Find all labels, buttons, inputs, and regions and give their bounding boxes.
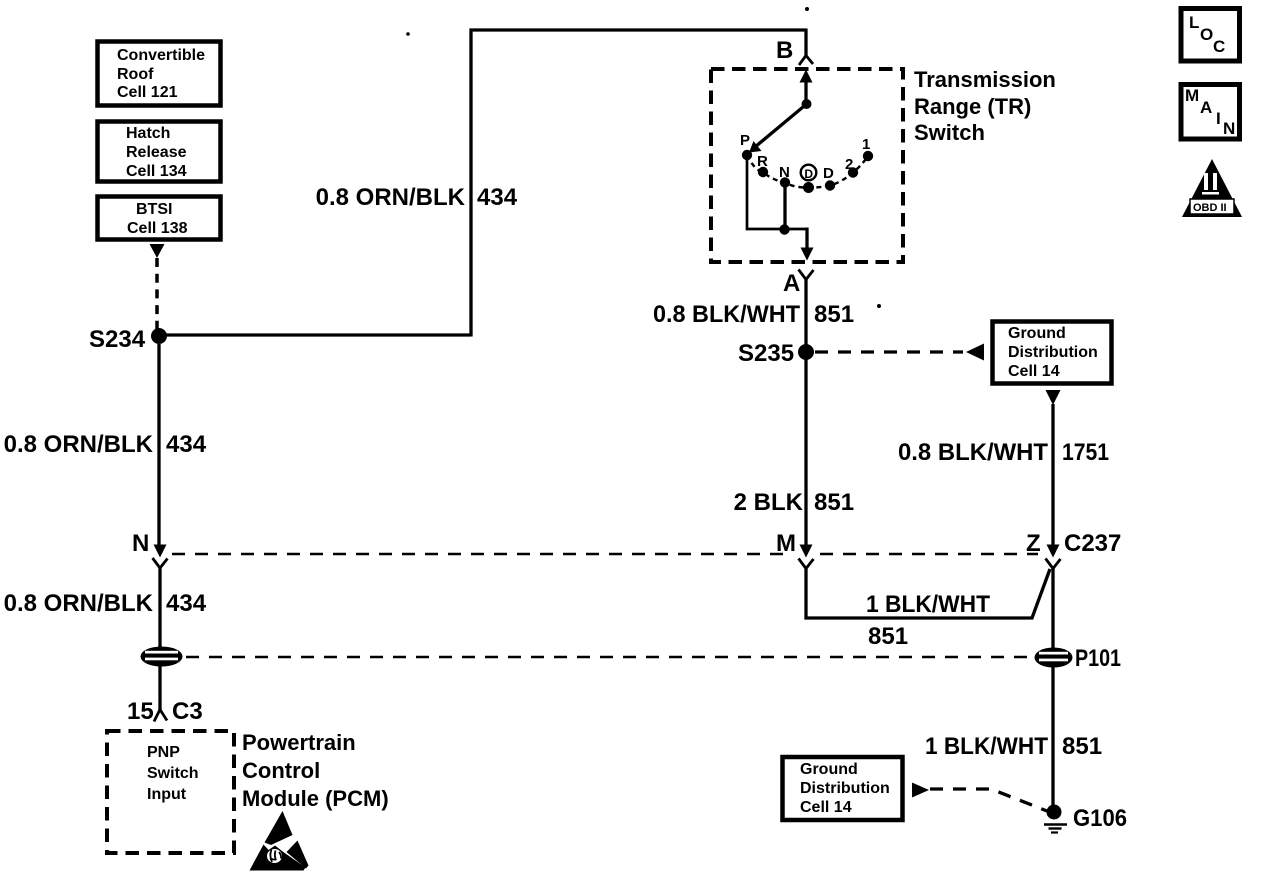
svg-text:Release: Release [126, 144, 187, 161]
contact P [742, 150, 752, 160]
dashed reference wire to G106 [930, 789, 1047, 811]
svg-text:Switch: Switch [147, 765, 199, 782]
wire from contact P down [747, 158, 807, 229]
connector B female fork [799, 56, 813, 66]
svg-text:Cell 121: Cell 121 [117, 84, 178, 101]
contact 1 [863, 151, 873, 161]
TR switch detent arc (dashed) [747, 155, 868, 188]
svg-text:Roof: Roof [117, 66, 154, 83]
contact D [825, 180, 835, 190]
box Hatch Release Cell 134 [98, 122, 221, 182]
svg-text:OBD II: OBD II [1193, 202, 1227, 214]
connector N male arrow [154, 545, 167, 558]
connector C237 separator (dashed line right) [820, 553, 1038, 556]
box PNP Switch Input (dashed) [107, 731, 234, 853]
wire from contact N down [783, 186, 786, 229]
svg-text:Control: Control [242, 758, 320, 783]
svg-text:Transmission: Transmission [914, 67, 1056, 92]
svg-text:851: 851 [814, 301, 854, 328]
svg-text:N: N [779, 164, 790, 181]
svg-text:M: M [1185, 86, 1199, 105]
svg-text:G106: G106 [1073, 805, 1127, 832]
svg-text:15: 15 [127, 698, 154, 725]
arrow below Ground Distribution box pointing down [1046, 390, 1061, 405]
ESD sensitivity symbol [250, 811, 309, 871]
svg-text:O: O [1200, 25, 1213, 44]
svg-text:0.8 ORN/BLK: 0.8 ORN/BLK [316, 184, 466, 211]
wire Ground Distribution to Z [1051, 404, 1054, 547]
scan speck [406, 32, 410, 36]
pass-through grommet (left) [141, 647, 183, 667]
svg-text:434: 434 [166, 431, 207, 458]
contact R [758, 167, 768, 177]
svg-text:Cell 138: Cell 138 [127, 220, 188, 237]
wire riser vertical x=471 [469, 29, 472, 337]
svg-text:B: B [776, 37, 793, 64]
wire grommet down to C3 [158, 666, 161, 711]
svg-text:Input: Input [147, 786, 187, 803]
svg-text:A: A [1200, 98, 1212, 117]
svg-text:851: 851 [868, 623, 908, 650]
wire P101 down to G106 [1051, 667, 1054, 808]
ground G106 [1044, 805, 1067, 833]
svg-text:Powertrain: Powertrain [242, 730, 356, 755]
svg-text:P: P [740, 132, 750, 149]
junction S235 [798, 344, 814, 360]
svg-text:P101: P101 [1075, 645, 1121, 672]
contact 2 [848, 167, 858, 177]
contact drive (below circled D) [803, 182, 814, 193]
svg-text:Convertible: Convertible [117, 47, 205, 64]
box BTSI Cell 138 [98, 197, 221, 240]
svg-text:0.8 ORN/BLK: 0.8 ORN/BLK [4, 590, 154, 617]
label Powertrain Control Module (PCM) [242, 730, 389, 811]
svg-text:1: 1 [862, 136, 870, 153]
svg-text:S235: S235 [738, 340, 794, 367]
wire S234 to riser (horizontal) [159, 333, 471, 336]
TR switch pivot [802, 99, 812, 109]
scan speck [877, 304, 881, 308]
svg-text:Z: Z [1026, 530, 1041, 557]
svg-text:1 BLK/WHT: 1 BLK/WHT [925, 733, 1048, 760]
svg-text:D: D [823, 165, 834, 182]
svg-text:PNP: PNP [147, 744, 180, 761]
svg-text:C: C [1213, 37, 1225, 56]
wire A to S235 [804, 279, 807, 346]
TR switch lever arm [755, 105, 806, 148]
svg-text:Cell 14: Cell 14 [800, 799, 852, 816]
svg-text:851: 851 [814, 489, 854, 516]
svg-text:2 BLK: 2 BLK [734, 489, 804, 516]
svg-text:Hatch: Hatch [126, 125, 170, 142]
svg-text:Distribution: Distribution [1008, 344, 1098, 361]
svg-text:Cell 14: Cell 14 [1008, 363, 1060, 380]
svg-text:Cell 134: Cell 134 [126, 163, 187, 180]
wire top horizontal to B [470, 28, 807, 31]
pass-through grommet P101 [1035, 648, 1073, 668]
wire N down to pass-through [158, 567, 161, 648]
wire S235 down to M [804, 358, 807, 547]
svg-text:851: 851 [1062, 733, 1102, 760]
svg-text:Switch: Switch [914, 120, 985, 145]
svg-text:Ground: Ground [1008, 325, 1066, 342]
svg-text:BTSI: BTSI [136, 201, 172, 218]
connector B male arrow [800, 70, 813, 83]
box Ground Distribution Cell 14 (lower) [783, 757, 903, 820]
wire to connector A with arrow [805, 228, 808, 251]
svg-text:Distribution: Distribution [800, 780, 890, 797]
svg-text:0.8 BLK/WHT: 0.8 BLK/WHT [898, 439, 1048, 466]
connector M male arrow [800, 545, 813, 558]
svg-text:N: N [1223, 119, 1235, 138]
wedge arrow at Ground Distribution (points left) [966, 344, 984, 361]
svg-text:434: 434 [166, 590, 207, 617]
OBD II triangle icon [1182, 159, 1242, 217]
svg-text:Range (TR): Range (TR) [914, 94, 1031, 119]
box Ground Distribution Cell 14 (upper) [993, 322, 1112, 384]
wedge arrow at lower Ground Distribution (points right) [912, 783, 929, 798]
wire Z down to P101 [1051, 566, 1054, 650]
wire drop to connector B [804, 29, 807, 57]
connector N female fork [153, 558, 168, 568]
svg-text:R: R [757, 153, 768, 170]
LOC reference icon [1181, 9, 1240, 62]
junction S234 [151, 328, 167, 344]
wire S234 down to N [157, 344, 160, 546]
svg-text:1 BLK/WHT: 1 BLK/WHT [866, 591, 990, 618]
contact N [780, 177, 790, 187]
connector M female fork [799, 559, 814, 569]
arrow from BTSI box pointing down [150, 244, 165, 258]
svg-text:A: A [783, 270, 800, 297]
MAIN reference icon [1181, 85, 1240, 140]
svg-text:N: N [132, 530, 149, 557]
svg-text:M: M [776, 530, 796, 557]
svg-text:C237: C237 [1064, 530, 1121, 557]
connector Z female fork [1046, 559, 1061, 569]
connector C3 fork [154, 710, 167, 722]
svg-text:0.8 ORN/BLK: 0.8 ORN/BLK [4, 431, 154, 458]
scan speck [805, 7, 809, 11]
overdrive circled D [801, 165, 817, 181]
svg-text:L: L [1189, 13, 1199, 32]
connector C237 separator (dashed line left) [172, 553, 793, 556]
label Transmission Range (TR) Switch [914, 67, 1056, 145]
svg-text:S234: S234 [89, 326, 146, 353]
junction inside TR switch [779, 224, 789, 234]
svg-text:D: D [804, 167, 813, 181]
svg-text:434: 434 [477, 184, 518, 211]
connector A female fork [799, 270, 814, 280]
svg-text:Module (PCM): Module (PCM) [242, 786, 389, 811]
TR switch dashed box [711, 69, 903, 262]
box Convertible Roof Cell 121 [98, 42, 221, 106]
wire dashed BTSI to S234 [155, 258, 159, 330]
svg-text:C3: C3 [172, 698, 203, 725]
svg-text:Ground: Ground [800, 761, 858, 778]
connector Z male arrow [1047, 545, 1060, 558]
svg-text:I: I [1216, 109, 1221, 128]
svg-text:0.8 BLK/WHT: 0.8 BLK/WHT [653, 301, 800, 328]
dashed reference wire S235 to Ground Distribution [815, 350, 963, 353]
wire M to Z lower run [806, 566, 1050, 618]
svg-text:1751: 1751 [1062, 439, 1109, 466]
TR switch lever arrowhead [749, 141, 762, 153]
dashed pass-through line [186, 656, 1030, 659]
